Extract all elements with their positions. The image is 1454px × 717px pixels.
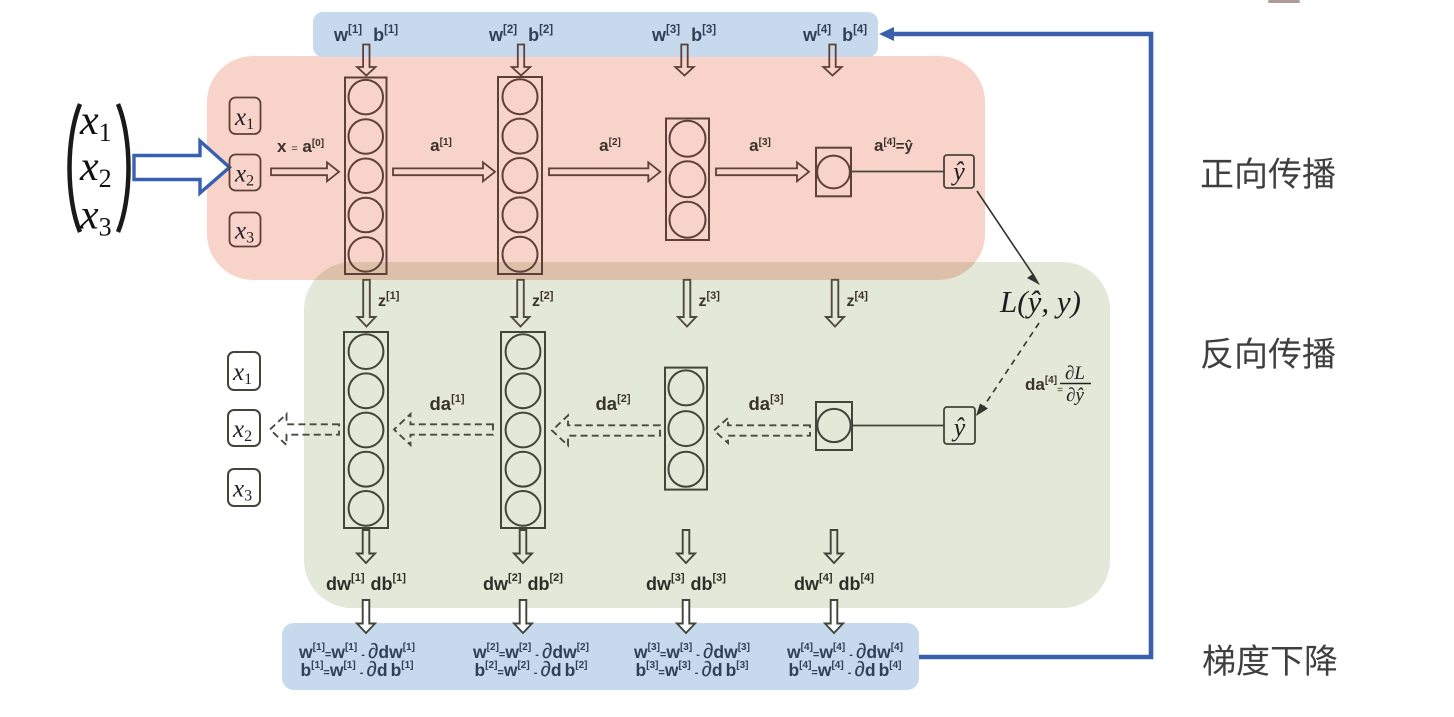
label gradient-descent (CJK): [1203, 644, 1337, 675]
arrow z[4]: [826, 280, 844, 327]
dashed backward arrow da[0]: [270, 414, 339, 445]
arrow z[2]: [512, 280, 530, 327]
layer 4 node (backward): [816, 402, 852, 450]
arrow dz to dw[1]: [357, 530, 375, 563]
forward arrow a[2]: [549, 162, 660, 181]
input node x1 (backward): [228, 352, 260, 390]
layer 3 nodes (backward): [665, 368, 707, 490]
output node yhat (forward): [944, 155, 974, 188]
input node x2 (backward): [228, 410, 260, 446]
input node x2 (forward): [230, 155, 261, 191]
layer 4 node (forward): [816, 148, 851, 197]
arrow z[3]: [678, 280, 696, 327]
big blue input arrow: [134, 141, 230, 193]
svg-text:ŷ: ŷ: [951, 413, 966, 442]
forward arrow a[3]: [716, 162, 809, 181]
label back-propagation (CJK): [1202, 337, 1335, 368]
layer 2 nodes (forward): [498, 77, 542, 274]
arrow dw[4] into update bar: [825, 600, 843, 633]
arrow dz to dw[3]: [677, 530, 695, 563]
arrow parameters into layer 1: [357, 45, 375, 76]
label forward-propagation (CJK): [1202, 157, 1335, 188]
input node x1 (forward): [230, 98, 261, 135]
svg-text:∂L: ∂L: [1065, 363, 1085, 384]
forward pink region: [207, 56, 985, 280]
layer 2 nodes (backward): [501, 332, 545, 528]
wire layer4 to yhat (forward): [851, 171, 944, 173]
wire layer4 to yhat (backward): [852, 425, 944, 427]
arrow z[1]: [358, 280, 376, 327]
dashed backward arrow da[1]: [394, 414, 493, 445]
backprop green region: [304, 262, 1110, 608]
top parameter bar: [313, 12, 878, 57]
forward arrow a[0]: [271, 162, 339, 181]
gradient-descent update bar: [282, 623, 919, 690]
svg-text:∂ŷ: ∂ŷ: [1066, 385, 1084, 406]
arrow dw[3] into update bar: [677, 600, 695, 633]
layer 1 nodes (backward): [344, 332, 388, 528]
layer 1 nodes (forward): [345, 78, 387, 275]
input vector matrix parentheses: [70, 104, 129, 232]
blue feedback loop wire: [891, 34, 1151, 657]
input node x3 (backward): [228, 469, 260, 506]
arrow parameters into layer 4: [823, 45, 841, 76]
arrow dz to dw[2]: [514, 530, 532, 563]
svg-text:ŷ: ŷ: [950, 157, 965, 186]
arrow dw[1] into update bar: [357, 600, 375, 633]
arrow parameters into layer 2: [512, 45, 530, 76]
dashed backward arrow da[3]: [714, 418, 810, 443]
forward arrow a[1]: [393, 162, 495, 181]
input node x3 (forward): [230, 213, 261, 247]
arrow yhat to loss: [977, 191, 1034, 276]
output node yhat (backward): [944, 407, 975, 444]
arrow dz to dw[4]: [825, 530, 843, 563]
svg-text:L(ŷ, y): L(ŷ, y): [999, 284, 1081, 319]
arrow parameters into layer 3: [675, 45, 693, 76]
cropped mark at top edge: [1268, 0, 1300, 3]
layer 3 nodes (forward): [666, 119, 709, 241]
dashed backward arrow da[2]: [552, 416, 660, 446]
arrow dw[2] into update bar: [514, 600, 532, 633]
dashed arrow loss to yhat backward: [984, 323, 1039, 406]
